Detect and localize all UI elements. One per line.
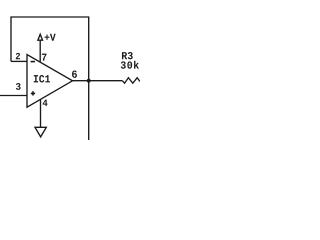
wire pin 2 input: [11, 60, 27, 62]
pin label 7: [42, 54, 47, 61]
inverting input marker -: [31, 61, 35, 63]
op-amp IC1 triangle: [27, 55, 73, 108]
wire pin 3 input: [0, 95, 27, 97]
pin label 3: [16, 83, 21, 90]
non-inverting input marker +: [31, 91, 35, 95]
designator IC1: [34, 75, 50, 82]
pin label 4: [43, 100, 48, 106]
pin label 6: [72, 70, 77, 77]
wire output pin 6: [73, 80, 123, 82]
pin label 2: [16, 53, 20, 59]
wire feedback loop (left riser, top run, right drop to bottom edge): [11, 17, 89, 140]
+V supply arrow: [38, 34, 43, 40]
wire pin 7 supply: [39, 40, 41, 62]
net label +V: [45, 34, 56, 41]
ground symbol: [35, 127, 46, 137]
junction node dot: [87, 79, 91, 83]
wire pin 4: [40, 100, 42, 128]
value 30k: [121, 61, 139, 69]
designator R3: [122, 52, 133, 59]
resistor R3 zigzag: [122, 78, 140, 84]
